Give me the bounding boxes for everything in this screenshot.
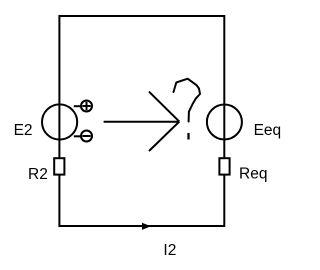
- transform arrow upper barb: [149, 92, 179, 122]
- resistor R2: [54, 158, 64, 174]
- minus terminal: [81, 131, 92, 142]
- svg-text:R2: R2: [28, 166, 48, 183]
- current arrowhead I2: [142, 223, 151, 230]
- plus terminal: [81, 101, 92, 112]
- svg-text:E2: E2: [14, 122, 33, 139]
- wire loop: [59, 16, 224, 226]
- wire to minus terminal: [74, 135, 81, 137]
- svg-text:Eeq: Eeq: [254, 122, 282, 139]
- wire to plus terminal: [74, 105, 81, 107]
- svg-text:Req: Req: [239, 166, 267, 183]
- voltage source E2: [42, 104, 77, 139]
- voltage source Eeq: [207, 105, 242, 140]
- resistor Req: [219, 158, 229, 174]
- transform arrow shaft: [104, 121, 179, 123]
- question mark body: [174, 79, 201, 122]
- transform arrow lower barb: [149, 122, 179, 151]
- question mark dot: [187, 133, 189, 140]
- svg-text:I2: I2: [163, 242, 176, 259]
